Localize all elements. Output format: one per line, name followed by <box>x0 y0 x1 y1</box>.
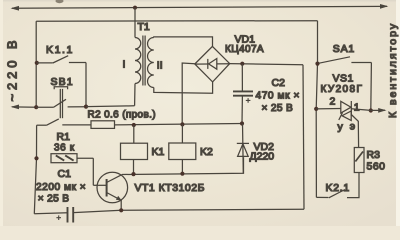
svg-text:С1: С1 <box>58 168 72 180</box>
svg-text:VT1 КТ3102Б: VT1 КТ3102Б <box>135 182 205 194</box>
node: minus bus / C2 / VD2 <box>240 121 244 125</box>
node: K2 bottom <box>180 172 184 176</box>
wire: second mains line y=21 <box>36 20 317 23</box>
arrow left bottom (~220V) <box>11 105 19 110</box>
svg-text:II: II <box>157 60 163 72</box>
arrow left (to ~220V) <box>11 6 20 11</box>
SB1 contact row 2 <box>37 124 47 126</box>
switch SA1 <box>315 62 319 66</box>
svg-text:36 к: 36 к <box>54 142 75 153</box>
transistor VT1 <box>97 172 128 203</box>
SB1 contact row 1 <box>36 106 53 108</box>
wire: minus bus from R2 to C2/VD2 node <box>115 124 243 125</box>
T1 primary <box>134 8 136 38</box>
svg-text:VS1: VS1 <box>333 72 354 84</box>
svg-text:K1.1: K1.1 <box>46 44 74 56</box>
contact K1.1 <box>35 61 39 65</box>
svg-text:Д220: Д220 <box>250 151 275 163</box>
arrow right (to fan, bottom) <box>378 108 386 113</box>
diode VD2 <box>242 124 245 174</box>
arrow right (to fan, top) <box>380 4 388 9</box>
wire: secondary top to bridge <box>154 37 213 47</box>
svg-text:R3: R3 <box>367 149 381 161</box>
svg-text:470 мк ×: 470 мк × <box>256 91 300 102</box>
wire: + rail right vertical <box>303 65 304 209</box>
svg-text:T1: T1 <box>138 21 150 33</box>
svg-text:КЦ407А: КЦ407А <box>225 44 264 55</box>
node: cathode / fan <box>369 108 373 112</box>
svg-text:× 25 В: × 25 В <box>262 103 294 114</box>
svg-text:SA1: SA1 <box>333 43 355 55</box>
relay coil K1 <box>133 125 135 143</box>
svg-text:I: I <box>123 59 126 71</box>
wire: right branch vertical (from y=21 line down) <box>316 21 317 198</box>
svg-text:1: 1 <box>354 101 360 113</box>
svg-text:K1: K1 <box>152 146 165 158</box>
node: K1 coil top <box>132 123 136 127</box>
node: C2 top <box>240 62 244 66</box>
svg-text:R1: R1 <box>57 131 71 143</box>
node: mains to SB1 <box>34 105 38 109</box>
node: K2 coil top / bridge minus <box>180 122 184 126</box>
svg-text:SB1: SB1 <box>51 76 74 88</box>
node: K1 bottom <box>131 172 135 176</box>
resistor R3 <box>354 148 364 173</box>
resistor R2 <box>91 121 115 129</box>
relay coil K2 <box>181 124 183 143</box>
wire: bridge right corner to + rail <box>230 64 303 65</box>
svg-text:С2: С2 <box>272 77 286 89</box>
node: T1 primary top junction <box>133 6 137 10</box>
svg-text:K2.1: K2.1 <box>326 182 350 194</box>
svg-text:у: у <box>338 121 344 133</box>
wire: collector bus <box>122 157 244 174</box>
node: emitter bottom <box>119 208 123 212</box>
wire to T1 primary bottom <box>86 105 135 108</box>
svg-text:2200 мк ×: 2200 мк × <box>36 182 86 193</box>
node: SB1/K1.1/R2 junction <box>84 105 88 109</box>
wire: top mains line with arrows <box>12 6 387 8</box>
T1 core <box>142 36 144 86</box>
resistor R1 <box>34 156 38 160</box>
bridge rectifier VD1 <box>195 46 230 82</box>
wire: left rail segment 2 <box>34 125 36 214</box>
T1 secondary <box>148 38 154 88</box>
svg-text:КУ208Г: КУ208Г <box>321 84 364 95</box>
svg-text:560: 560 <box>367 161 386 173</box>
svg-text:~220 В: ~220 В <box>5 37 20 102</box>
svg-text:К вентилятору: К вентилятору <box>387 22 399 118</box>
svg-text:R2 0.6 (пров.): R2 0.6 (пров.) <box>88 110 156 121</box>
wire: bridge left corner down to minus bus <box>182 63 195 124</box>
svg-text:2: 2 <box>330 96 336 108</box>
svg-text:K2: K2 <box>200 146 213 158</box>
wire: bottom-left mains stub with arrow <box>12 106 36 108</box>
wire: secondary bottom to bridge bottom corner <box>154 82 213 93</box>
svg-text:э: э <box>350 120 355 132</box>
wire: left rail segment 1 <box>35 21 37 107</box>
wire: bottom rail <box>34 213 67 214</box>
capacitor C2 <box>241 64 243 91</box>
svg-text:× 25 В: × 25 В <box>38 194 70 205</box>
